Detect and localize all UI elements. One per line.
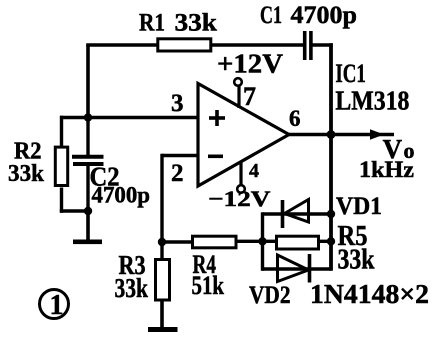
output arrowhead	[370, 129, 384, 139]
wire diode network left bar	[261, 212, 264, 270]
diode VD1	[283, 200, 309, 229]
pin number 7	[243, 82, 256, 111]
wire R2 branch vertical top	[60, 116, 63, 146]
svg-text:33k: 33k	[338, 245, 375, 276]
svg-text:1kHz: 1kHz	[359, 157, 414, 182]
wire pin 2 horizontal stub	[162, 154, 198, 157]
label R3	[119, 250, 146, 280]
svg-text:4: 4	[249, 160, 259, 182]
label R5 value 33k	[338, 245, 375, 276]
svg-text:3: 3	[171, 90, 184, 117]
resistor R4	[193, 236, 237, 248]
wire R5 row right	[319, 240, 331, 243]
label R2 value 33k	[8, 161, 45, 187]
capacitor C2	[72, 157, 104, 164]
svg-text:4700p: 4700p	[92, 183, 151, 208]
svg-text:33k: 33k	[175, 10, 218, 37]
svg-text:4700p: 4700p	[291, 2, 358, 29]
wire R3 bottom stem	[160, 301, 164, 328]
pin 7 terminal circle	[234, 78, 242, 86]
resistor R1	[158, 39, 211, 51]
op-amp minus input marking	[208, 155, 223, 159]
label 1N4148x2	[310, 279, 429, 309]
wire C1 to right feedback line	[313, 43, 333, 47]
node junction dot VD1/feedback	[327, 210, 335, 218]
pin number 4	[249, 160, 259, 182]
wire output horizontal	[289, 133, 394, 137]
label -12V supply	[208, 186, 271, 211]
label +12V supply	[217, 49, 284, 79]
svg-text:IC1: IC1	[335, 59, 366, 88]
node junction dot at +input	[84, 113, 92, 121]
svg-text:VD1: VD1	[336, 193, 382, 220]
resistor R2	[55, 147, 67, 185]
resistor R5	[277, 236, 319, 249]
label C1 4700p	[260, 2, 357, 29]
wire R1 to C1	[212, 43, 304, 47]
pin 4 stub wire	[239, 161, 242, 185]
node junction dot output/feedback	[327, 130, 336, 139]
node junction dot inverting network	[158, 238, 166, 246]
label C2	[90, 162, 120, 192]
pin number 2	[171, 160, 184, 187]
label R2	[14, 139, 42, 165]
wire VD2 row	[263, 267, 332, 270]
svg-text:LM318: LM318	[335, 86, 409, 116]
capacitor C1	[305, 31, 311, 60]
label R4 value 51k	[192, 271, 225, 300]
resistor R3	[156, 260, 170, 301]
diode VD2	[278, 254, 310, 283]
label R3 value 33k	[115, 273, 149, 303]
wire ground stem left	[86, 211, 90, 240]
label VD1	[336, 193, 382, 220]
node junction dot R2/C2 bottom	[84, 207, 92, 215]
svg-text:2: 2	[171, 160, 184, 187]
wire VD1 row	[263, 212, 332, 215]
op-amp U1 triangle	[198, 84, 289, 187]
node junction dot R4/network	[258, 237, 266, 245]
label R4	[193, 250, 217, 279]
wire right vertical feedback line	[329, 43, 333, 271]
wire R5 row left	[263, 240, 277, 243]
svg-text:VD2: VD2	[249, 282, 291, 309]
ground (left)	[73, 240, 102, 245]
pin 7 stub wire	[237, 86, 240, 108]
op-amp plus input marking	[209, 110, 225, 126]
pin 4 terminal circle	[237, 185, 245, 193]
wire C2 branch vertical from +input node	[86, 118, 89, 156]
wire R4 to diode network	[238, 240, 265, 243]
label C2 value 4700p	[92, 183, 151, 208]
wire R3/R4 node horizontal to R4	[162, 240, 192, 243]
wire +input node horizontal (pin 3 wire)	[60, 116, 198, 120]
label IC1	[335, 59, 366, 88]
label VD2	[249, 282, 291, 309]
wire pin 2 vertical down to R3/R4 node	[160, 154, 163, 242]
svg-text:1: 1	[50, 290, 64, 321]
svg-text:33k: 33k	[115, 273, 149, 303]
svg-text:33k: 33k	[8, 161, 45, 187]
svg-text:7: 7	[243, 82, 256, 111]
svg-text:+12V: +12V	[217, 49, 284, 79]
svg-text:R1: R1	[139, 10, 165, 37]
pin number 6	[289, 106, 301, 131]
wire R2 bottom vertical	[60, 188, 63, 213]
label Vo	[383, 134, 415, 164]
wire R3 top stub	[160, 242, 163, 259]
svg-text:C1: C1	[260, 2, 282, 29]
ground (right)	[148, 327, 178, 332]
wire C2 bottom vertical	[86, 164, 89, 211]
figure number circled 1	[40, 290, 69, 322]
wire top horizontal from corner to R1	[86, 43, 157, 47]
label 1kHz	[359, 157, 414, 182]
svg-text:6: 6	[289, 106, 301, 131]
svg-text:51k: 51k	[192, 271, 225, 300]
label R5	[338, 221, 368, 252]
wire R2 bottom horizontal to ground node	[60, 209, 88, 212]
pin number 3	[171, 90, 184, 117]
svg-text:−12V: −12V	[208, 186, 271, 211]
node junction dot R5/feedback	[327, 237, 335, 245]
svg-text:1N4148×2: 1N4148×2	[310, 279, 429, 309]
wire top-left vertical from R1 corner to +input node	[86, 45, 90, 119]
label LM318	[335, 86, 409, 116]
label R1 33k	[139, 10, 217, 37]
